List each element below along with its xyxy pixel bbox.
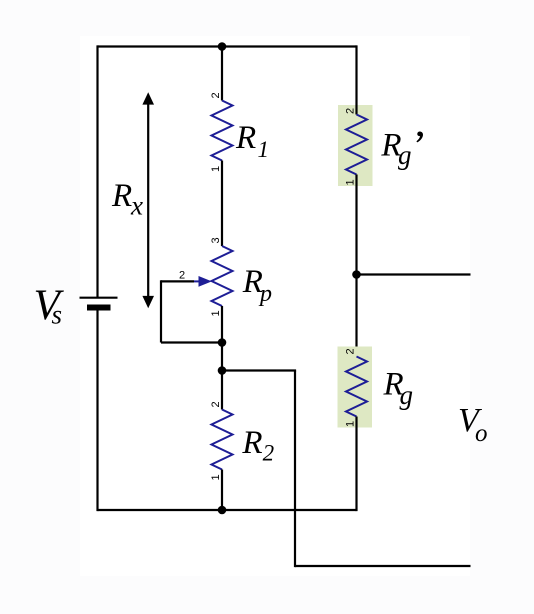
svg-text:1: 1 bbox=[210, 310, 222, 316]
wire output plus lead bbox=[357, 273, 471, 275]
node junction top (222,46) bbox=[218, 42, 227, 51]
svg-text:2: 2 bbox=[210, 92, 222, 98]
svg-text:s: s bbox=[52, 300, 63, 330]
pin 1 of Rg bbox=[345, 421, 357, 427]
pin 2 of R2 bbox=[210, 401, 222, 407]
node junction right mid (356.5,274) bbox=[352, 270, 361, 279]
svg-text:2: 2 bbox=[345, 108, 357, 114]
svg-text:1: 1 bbox=[258, 137, 270, 162]
pin 1 of R2 bbox=[210, 474, 222, 480]
svg-text:3: 3 bbox=[210, 237, 222, 243]
pin 1 of Rg' bbox=[345, 179, 357, 185]
resistor Rg' zigzag bbox=[346, 115, 367, 175]
pin 2 of Rg' bbox=[345, 108, 357, 114]
resistor R2 zigzag bbox=[212, 410, 233, 470]
svg-text:R: R bbox=[111, 178, 132, 214]
wire top rail bbox=[98, 45, 357, 47]
highlight box Rg bbox=[338, 347, 373, 428]
pin 3 of Rp bbox=[210, 237, 222, 243]
pin 1 of Rp bbox=[210, 310, 222, 316]
wire bottom rail bbox=[98, 509, 357, 511]
pin 1 of R1 bbox=[210, 166, 222, 172]
svg-text:2: 2 bbox=[345, 348, 357, 354]
svg-text:x: x bbox=[130, 191, 143, 221]
wire right rail: Rg' to node bbox=[355, 175, 357, 357]
wire middle rail: R2 to bottom bbox=[221, 470, 223, 511]
resistor Rg zigzag bbox=[346, 357, 367, 417]
node junction wiper (222,342.5) bbox=[218, 338, 227, 347]
svg-text:g: g bbox=[398, 140, 412, 170]
svg-text:1: 1 bbox=[210, 166, 222, 172]
wire middle rail: R1 to Rp bbox=[221, 161, 223, 247]
label Rx bbox=[111, 178, 143, 221]
svg-text:2: 2 bbox=[210, 401, 222, 407]
node junction bottom (222,510.5) bbox=[218, 506, 227, 515]
svg-text:o: o bbox=[475, 420, 488, 447]
svg-text:p: p bbox=[258, 281, 272, 307]
svg-text:R: R bbox=[235, 120, 256, 156]
resistor R1 zigzag bbox=[212, 101, 233, 161]
highlight box Rg' bbox=[338, 105, 373, 186]
wire middle rail: Rp to R2 bbox=[221, 306, 223, 410]
wire output minus: tap to right bbox=[222, 369, 296, 371]
node junction output tap (222,370.5) bbox=[218, 366, 227, 375]
measure arrow Rx (double-headed) bbox=[142, 92, 154, 308]
svg-text:2: 2 bbox=[179, 270, 185, 282]
label Vs bbox=[34, 282, 65, 330]
pin 2 of Rg bbox=[345, 348, 357, 354]
svg-text:g: g bbox=[400, 380, 414, 410]
svg-text:1: 1 bbox=[345, 179, 357, 185]
pin 2 of Rp (wiper) bbox=[179, 270, 185, 282]
svg-text:1: 1 bbox=[345, 421, 357, 427]
svg-text:R: R bbox=[241, 425, 262, 461]
wire wiper loop down bbox=[160, 280, 162, 342]
label R2 bbox=[241, 425, 274, 466]
wire output minus: to right bbox=[295, 565, 471, 567]
potentiometer Rp wiper arrow bbox=[194, 276, 212, 287]
wire left rail upper bbox=[96, 45, 98, 297]
wire right rail: Rg to bottom bbox=[355, 417, 357, 512]
label Rg bbox=[383, 367, 414, 411]
svg-text:1: 1 bbox=[210, 474, 222, 480]
wire output minus: down bbox=[294, 371, 296, 568]
label Vo bbox=[458, 402, 488, 447]
wire wiper loop to rail bbox=[161, 341, 222, 343]
wire right rail: top to Rg' bbox=[355, 45, 357, 114]
wire left rail lower bbox=[96, 311, 98, 512]
battery V1 plate long bbox=[80, 297, 118, 299]
label R1 bbox=[235, 120, 269, 162]
label Rp bbox=[242, 264, 272, 307]
wire middle rail: top to R1 bbox=[221, 47, 223, 101]
pin 2 of R1 bbox=[210, 92, 222, 98]
svg-text:2: 2 bbox=[263, 441, 275, 466]
label Rg' bbox=[380, 127, 423, 170]
battery V1 plate short thick bbox=[87, 305, 111, 311]
potentiometer Rp zigzag bbox=[212, 246, 233, 306]
wire wiper to left bbox=[161, 280, 194, 282]
